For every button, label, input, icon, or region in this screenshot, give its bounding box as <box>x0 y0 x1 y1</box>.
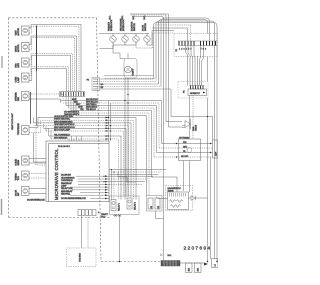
wire switch bottom rail <box>113 44 136 46</box>
wire P1 feed drop 1 horiz <box>152 27 188 29</box>
connector P2 pins <box>191 86 204 90</box>
arrow to supply <box>204 263 208 266</box>
wire HV row 4 <box>154 156 213 158</box>
wire bus line 2 <box>63 103 159 148</box>
svg-text:ORN VENT MOTOR HI: ORN VENT MOTOR HI <box>54 124 75 126</box>
node bottom junctions <box>207 261 218 263</box>
wire control out row3 ext <box>109 181 145 183</box>
wire drive motor bottom lead <box>29 38 75 92</box>
arrow terminals column <box>106 117 109 140</box>
node fuse junction <box>119 261 121 263</box>
wire turntable lead B to control <box>29 120 134 199</box>
wire trunk lower <box>36 71 38 126</box>
wire bus line 7 <box>76 116 147 196</box>
bus wire inline labels <box>72 99 85 111</box>
wire P2 to HV transformer 2 <box>192 96 194 140</box>
HV transformer box <box>179 139 201 161</box>
control board U1 outline <box>46 141 109 202</box>
damper motor symbol <box>182 119 191 129</box>
svg-text:GRY SENSOR: GRY SENSOR <box>54 138 68 140</box>
connector P2 rail <box>190 86 205 90</box>
wire mc row 3 <box>100 83 159 85</box>
svg-text:RED VENT MOTOR LO: RED VENT MOTOR LO <box>54 127 75 129</box>
svg-text:FAN RELAY: FAN RELAY <box>61 182 72 185</box>
wire oven lamp bottom lead <box>29 68 67 91</box>
wire thermostat leads <box>29 174 46 179</box>
wire control out row2 ext <box>109 178 148 180</box>
svg-text:YEL TURNTABLE: YEL TURNTABLE <box>54 134 70 137</box>
LEGEND <box>29 101 136 200</box>
wire k3 lead down <box>156 211 164 218</box>
svg-text:RELAY 2: RELAY 2 <box>134 201 137 210</box>
MAGSECTION <box>152 177 208 211</box>
wire mc row 2 <box>100 78 157 81</box>
lamp cooktop light <box>125 66 135 75</box>
connector P4 housing <box>92 78 100 91</box>
wire switch right to connector <box>147 31 174 46</box>
terminal block TB1 <box>161 261 180 267</box>
wire P1 feed drop 2 horiz <box>155 24 191 26</box>
svg-text:INTERLOCK: INTERLOCK <box>123 19 125 31</box>
wire P1 feed drop 1 <box>187 28 189 41</box>
svg-text:DOOR SW: DOOR SW <box>61 175 72 177</box>
svg-text:TURNTABLE: TURNTABLE <box>17 123 20 135</box>
thermal fuse TCO2 <box>101 213 121 219</box>
wire turntable drop B <box>36 128 46 165</box>
wire row 7 <box>49 136 122 200</box>
wire midbus v7 top <box>130 13 169 15</box>
wire left drop A <box>33 118 35 123</box>
svg-text:L1 BLK SUPPLY 120V: L1 BLK SUPPLY 120V <box>54 116 74 118</box>
svg-text:TCO: TCO <box>101 217 106 219</box>
wire switch right rail 2 <box>136 33 174 48</box>
wire control row 8 <box>70 194 109 196</box>
wire control out upper 3 <box>109 174 159 176</box>
motor M1 vent motor <box>16 26 29 36</box>
BOTTOM <box>67 196 219 273</box>
svg-text:TURNTABLE: TURNTABLE <box>61 179 73 182</box>
supply box <box>212 259 219 268</box>
wire midbus v6 top <box>130 14 166 16</box>
wire control out upper 1 <box>109 169 166 171</box>
wire bend bottom left of block <box>160 254 163 257</box>
connector P3 housing <box>60 92 85 97</box>
wire control out upper 2 <box>109 171 161 173</box>
noise filter box <box>188 89 207 96</box>
svg-text:N WHT NEUTRAL: N WHT NEUTRAL <box>54 118 71 121</box>
wire lamp drop right long <box>127 78 129 197</box>
wire HV row 2 <box>159 147 213 149</box>
wire sensor feed row 4 <box>34 126 129 197</box>
diode D1 <box>191 196 195 201</box>
svg-text:BLU COOK LAMP: BLU COOK LAMP <box>54 129 71 132</box>
sensor RT1 humidity sensor <box>16 156 29 166</box>
hood cabinet dashed border top <box>9 17 97 19</box>
svg-text:DOOR INTERLOCK: DOOR INTERLOCK <box>27 200 45 202</box>
svg-text:INTERLOCK: INTERLOCK <box>111 19 113 31</box>
svg-text:LAMP: LAMP <box>61 185 67 188</box>
svg-text:N.O.: N.O. <box>168 255 172 257</box>
hood cabinet dashed border bottom <box>9 217 111 219</box>
wire comp A feed 1 <box>111 170 113 200</box>
svg-text:GRN CHASSIS GND: GRN CHASSIS GND <box>54 120 73 123</box>
scan mark left edge lower <box>1 199 3 215</box>
lamp L1 oven lamp <box>16 73 29 83</box>
wire midbus v1 <box>154 23 218 262</box>
connector P1 pin block B <box>201 41 216 46</box>
svg-text:MICROWAVE CONTROL: MICROWAVE CONTROL <box>54 148 59 200</box>
switch S3 monitor <box>133 34 139 46</box>
wire P5 to CVM right <box>87 216 89 249</box>
svg-text:NOISE FLT: NOISE FLT <box>190 93 201 95</box>
connector P3 pins <box>61 92 84 96</box>
lower cabinet dashed border bottom <box>101 261 162 263</box>
switch S4 door <box>144 34 150 46</box>
wire turntable lead A to control <box>29 118 136 200</box>
svg-text:CAVITY: CAVITY <box>132 68 135 76</box>
fuse holder box 1 <box>186 263 193 273</box>
wire bus line 1 <box>61 101 162 144</box>
svg-text:TCO: TCO <box>18 176 20 181</box>
svg-text:HV CAP: HV CAP <box>181 155 189 158</box>
HV capacitor box <box>213 140 219 158</box>
node bus junctions <box>124 100 128 104</box>
wire cap drop <box>210 157 212 259</box>
node legend junctions <box>108 117 111 140</box>
control board top stubs <box>69 136 82 141</box>
wire mc row 4 <box>100 86 162 88</box>
relay K3 pair <box>147 196 163 212</box>
wire oven lamp top lead <box>29 67 69 92</box>
wire P5 to CVM left <box>81 216 83 249</box>
wire row 6 <box>46 131 124 197</box>
wire control out row4 ext <box>109 183 142 185</box>
wire lamp drop left long <box>124 78 126 200</box>
wire control row 3 <box>78 181 109 183</box>
wire midbus v2 <box>156 21 215 259</box>
hood cabinet dashed border left <box>8 18 10 218</box>
svg-text:SWITCH: SWITCH <box>145 23 147 31</box>
wire bus line 3 <box>66 106 157 153</box>
connector P1 pin block A <box>179 41 194 46</box>
control board inner border <box>49 144 110 202</box>
thermostat TCO1 <box>16 171 29 181</box>
switch S2 secondary <box>122 34 128 46</box>
wire fuse drop to line <box>118 215 120 262</box>
wire switch1 bottom to border <box>100 45 114 49</box>
HV winding circle <box>187 148 192 153</box>
magnetron hatch ticks <box>170 193 186 197</box>
TOPCONN <box>152 25 218 139</box>
BUSA <box>60 92 162 196</box>
wire feed vertical b <box>110 103 112 141</box>
wire turntable drop A <box>34 133 47 162</box>
wire trunk branch upper <box>30 92 32 124</box>
wire control row 4 <box>78 183 109 185</box>
svg-text:N.C.: N.C. <box>133 15 135 19</box>
svg-text:MAG RELAY: MAG RELAY <box>61 190 73 193</box>
svg-text:HUM SENSOR: HUM SENSOR <box>61 177 75 179</box>
node HV junctions <box>176 143 211 158</box>
wire sensor feed row 3 <box>34 123 132 197</box>
arrow P2 out <box>203 92 206 94</box>
wire stirrer fan bottom lead <box>29 99 61 103</box>
wire switch to border <box>99 33 109 35</box>
magnetron enclosure dashed <box>166 186 193 211</box>
connector P1 housing dashed <box>174 34 218 57</box>
wire midbus v8 right branch <box>171 89 213 140</box>
BORDERS <box>2 18 162 262</box>
LEFTCOMPS <box>15 26 46 202</box>
connector P5 <box>78 210 100 216</box>
node mid junction <box>163 261 165 263</box>
fuse holder box 2 <box>195 263 202 273</box>
wire midbus v6 gas feed 1 <box>166 15 182 122</box>
relay box K1 K2 outline <box>110 196 140 215</box>
wire control row 7 <box>80 192 109 194</box>
svg-text:N.O.: N.O. <box>144 15 146 19</box>
switch S5 door sense <box>16 187 29 197</box>
wire midbus v3 <box>159 20 208 117</box>
wire bus vertical trunk <box>36 26 38 72</box>
antenna diode out <box>189 197 192 199</box>
switch S1 primary <box>110 34 116 46</box>
wire diode to bus <box>195 197 207 199</box>
motor M2 drive motor <box>16 43 29 53</box>
wire magnetron top feed <box>152 177 178 192</box>
svg-text:2207694: 2207694 <box>184 245 212 251</box>
svg-text:MTR: MTR <box>18 63 20 68</box>
wire door switch leads <box>29 189 46 194</box>
svg-text:SENS: SENS <box>18 159 20 165</box>
wire bus line 4 <box>69 108 155 157</box>
terminal block TB1 gaps <box>164 261 176 267</box>
wire P2 to HV transformer <box>189 96 191 140</box>
RIGHTMID <box>154 119 218 259</box>
node lamp junction <box>127 94 128 95</box>
node row junctions <box>103 169 114 182</box>
wire fan motor bottom lead <box>29 55 71 91</box>
wire control row 1 <box>76 175 109 177</box>
node junction right <box>207 116 208 117</box>
svg-text:CVM FAN: CVM FAN <box>79 253 82 262</box>
svg-text:N.O.: N.O. <box>110 15 112 19</box>
MIDBUS <box>87 14 218 262</box>
svg-text:NEUTRAL: NEUTRAL <box>61 193 71 196</box>
wire humid sensor leads <box>29 159 46 164</box>
magnetron tube box <box>168 192 189 210</box>
connector P3 pin stubs to bus <box>66 97 76 116</box>
svg-text:P8 1 2 3 4 5 6: P8 1 2 3 4 5 6 <box>58 146 70 148</box>
wire P1 feed drop 2 <box>190 25 192 41</box>
connector P4 pin rows <box>93 79 99 89</box>
wire control row 2 <box>78 178 109 180</box>
svg-text:MOTOR: MOTOR <box>18 44 20 52</box>
wire step a <box>118 172 127 177</box>
wire HV to magnetron links <box>184 161 190 193</box>
svg-text:RELAY 1: RELAY 1 <box>118 202 121 211</box>
wire mc row 5 <box>100 88 172 90</box>
wire row 5 <box>44 128 127 196</box>
svg-text:VALVE: VALVE <box>195 124 198 131</box>
wire bus line 6 <box>74 113 150 196</box>
wire lamp feed staircase <box>113 45 128 59</box>
wire TB1 out <box>180 262 204 264</box>
wire stirrer fan top lead <box>29 94 63 101</box>
wire fan motor top lead <box>29 54 73 92</box>
motor M3 fan motor <box>15 58 29 68</box>
scan mark left edge upper <box>1 56 3 68</box>
wire midbus v5 long drop <box>132 17 164 262</box>
wire control row 9 <box>90 198 109 200</box>
svg-text:LAMP: LAMP <box>17 76 20 82</box>
wire HV cap feed drop <box>207 117 209 199</box>
wire vent motor bottom lead <box>29 26 79 91</box>
wire switch top rail <box>109 33 150 35</box>
wire row 8 <box>51 139 119 200</box>
wire magnetron left feed <box>156 197 168 199</box>
motor M4 stirrer fan <box>16 92 29 102</box>
wire control out row1 ext <box>109 175 153 177</box>
svg-text:RELAY COM: RELAY COM <box>61 187 73 190</box>
wire left drop B <box>44 124 52 139</box>
svg-text:HV TRANS: HV TRANS <box>179 137 190 140</box>
magnetron filament waves <box>170 200 183 208</box>
svg-text:VENT HOOD UNIT: VENT HOOD UNIT <box>12 113 14 130</box>
motor M5 turntable motor <box>17 123 29 135</box>
wire diode return drop <box>207 198 209 262</box>
wire drive motor top lead <box>29 36 77 92</box>
P2 dashed enclosure <box>178 82 208 99</box>
wire midbus v4 <box>161 18 210 87</box>
MIDVERT <box>103 78 166 200</box>
wire feed vertical a <box>108 101 110 142</box>
relay K1 <box>111 200 121 212</box>
wire mc row 1 <box>100 76 154 79</box>
svg-text:MOTOR: MOTOR <box>18 28 20 36</box>
SWITCHES <box>99 15 174 95</box>
wire control row 5 <box>70 186 109 188</box>
arrow terminals control rows <box>105 175 108 199</box>
svg-text:CAP: CAP <box>215 151 218 156</box>
wire P1 to P2 harness <box>186 46 204 86</box>
wire vent motor top lead <box>29 25 81 92</box>
wire HV row 1 <box>162 143 213 145</box>
svg-text:DOOR SENSE INTERLOCK: DOOR SENSE INTERLOCK <box>61 198 86 200</box>
svg-text:FAN: FAN <box>17 97 20 101</box>
connector P1 pin rail <box>178 41 217 46</box>
wire midbus v7 gas feed 2 <box>169 14 183 127</box>
CVM box dashed <box>67 248 97 267</box>
svg-text:SWITCH: SWITCH <box>134 23 136 31</box>
wire step b <box>127 177 136 182</box>
CONTROLBOX <box>46 136 109 202</box>
wire bus line 5 <box>71 111 152 178</box>
hood cabinet dashed border right <box>97 18 102 262</box>
wire control row 6 <box>72 189 109 191</box>
wire HV row 3 <box>157 152 213 154</box>
svg-text:YEL BLU-6: YEL BLU-6 <box>86 109 96 111</box>
lamp cooktop light enclosure <box>124 59 137 79</box>
wire comp A feed 2 <box>113 172 115 200</box>
NESTWIRES <box>12 25 81 166</box>
relay K2 <box>127 198 137 210</box>
